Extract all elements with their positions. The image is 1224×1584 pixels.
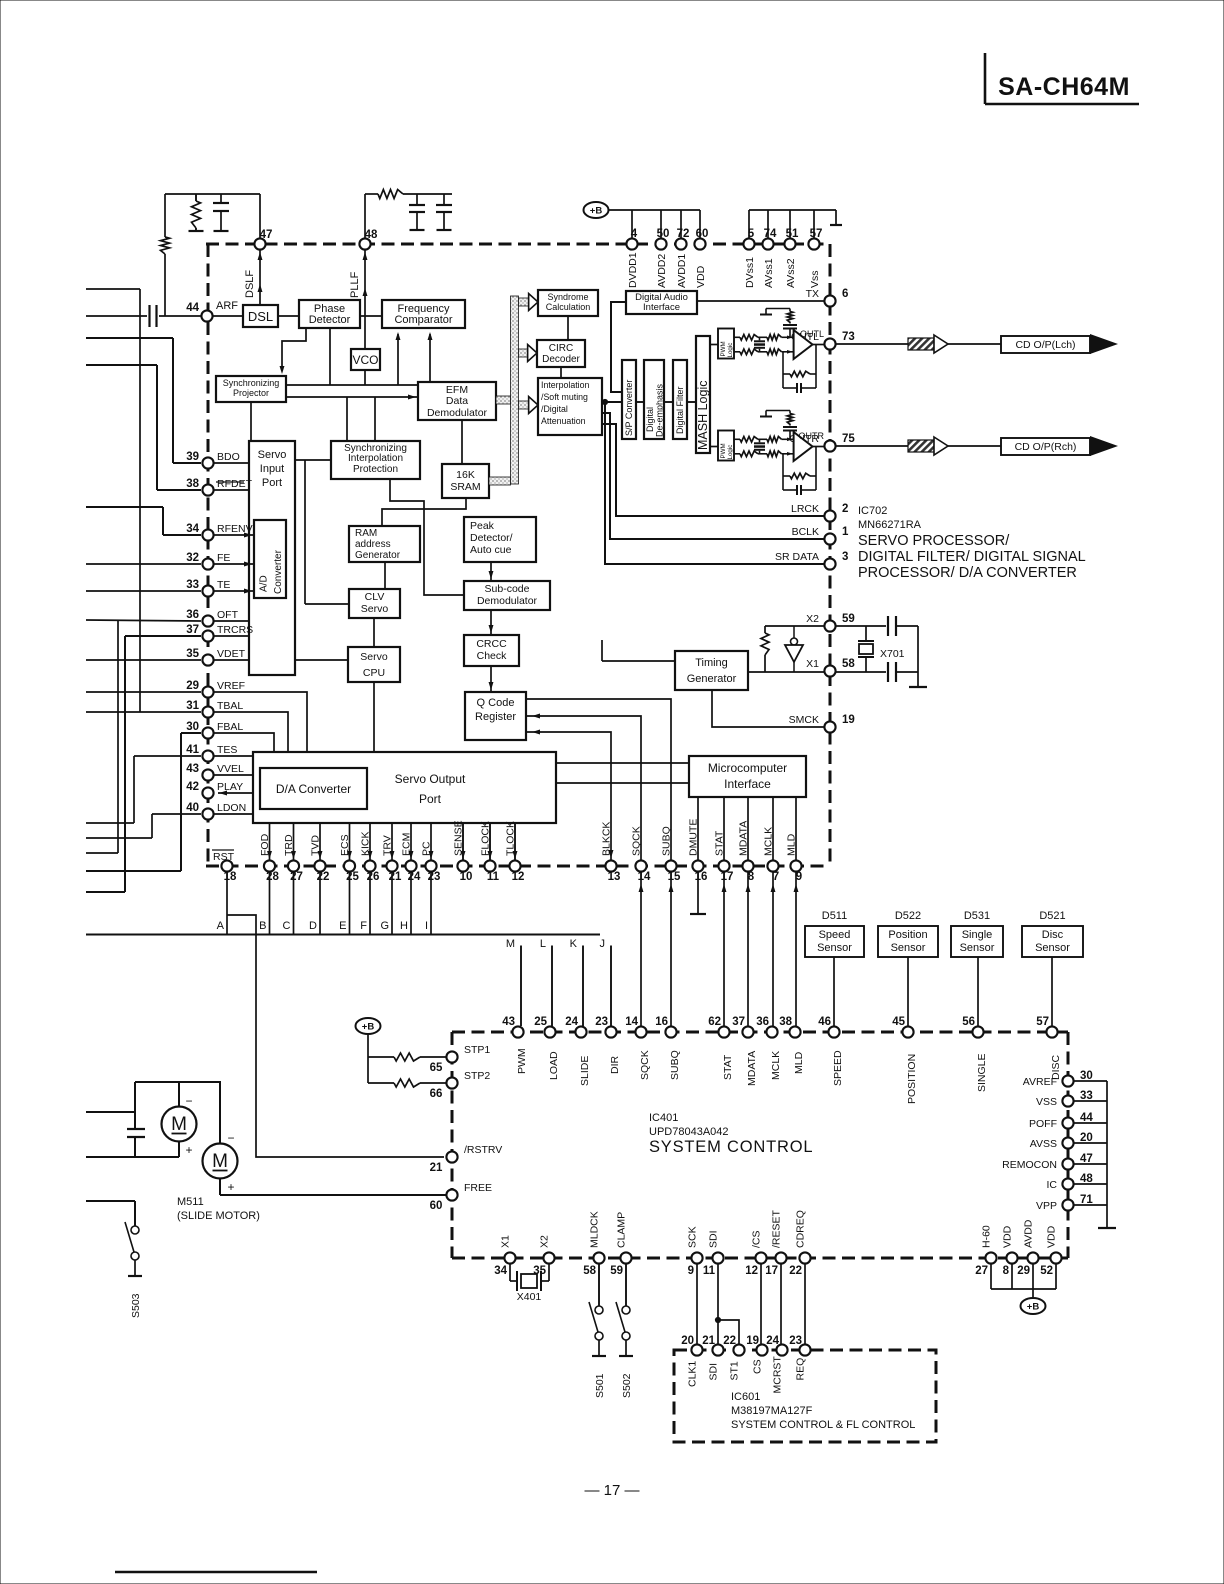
svg-text:73: 73 bbox=[842, 331, 855, 343]
svg-text:VDD: VDD bbox=[695, 265, 707, 288]
svg-text:C: C bbox=[283, 920, 291, 932]
svg-text:21: 21 bbox=[389, 871, 402, 883]
svg-text:18: 18 bbox=[224, 871, 237, 883]
svg-text:−: − bbox=[185, 1094, 192, 1108]
svg-text:Digital Filter: Digital Filter bbox=[675, 386, 685, 434]
svg-text:VREF: VREF bbox=[217, 680, 245, 692]
svg-text:RST: RST bbox=[213, 851, 235, 863]
svg-text:27: 27 bbox=[975, 1265, 988, 1277]
svg-text:Input: Input bbox=[260, 463, 284, 475]
svg-text:H: H bbox=[400, 920, 408, 932]
svg-text:39: 39 bbox=[186, 451, 199, 463]
svg-text:Sensor: Sensor bbox=[960, 942, 995, 954]
svg-text:IC702: IC702 bbox=[858, 505, 887, 517]
svg-text:28: 28 bbox=[266, 871, 279, 883]
svg-text:CLV: CLV bbox=[365, 591, 385, 603]
svg-text:IC601: IC601 bbox=[731, 1391, 760, 1403]
svg-text:17: 17 bbox=[721, 871, 734, 883]
svg-text:X2: X2 bbox=[806, 613, 819, 625]
svg-text:VDET: VDET bbox=[217, 648, 246, 660]
svg-text:Attenuation: Attenuation bbox=[541, 416, 586, 426]
svg-text:+: + bbox=[185, 1143, 192, 1157]
svg-text:Generator: Generator bbox=[687, 673, 737, 685]
svg-text:MLD: MLD bbox=[793, 1051, 805, 1074]
svg-text:— 17 —: — 17 — bbox=[584, 1482, 639, 1499]
svg-text:BCLK: BCLK bbox=[792, 526, 819, 538]
svg-text:MN66271RA: MN66271RA bbox=[858, 519, 922, 531]
svg-text:E: E bbox=[339, 920, 346, 932]
svg-text:/RESET: /RESET bbox=[771, 1209, 783, 1248]
svg-text:SDI: SDI bbox=[708, 1230, 720, 1248]
svg-text:I: I bbox=[425, 920, 428, 932]
svg-text:22: 22 bbox=[317, 871, 330, 883]
svg-text:19: 19 bbox=[746, 1335, 759, 1347]
svg-text:12: 12 bbox=[512, 871, 525, 883]
svg-text:POFF: POFF bbox=[1029, 1118, 1057, 1130]
svg-text:65: 65 bbox=[430, 1062, 443, 1074]
svg-text:D/A Converter: D/A Converter bbox=[276, 782, 351, 796]
svg-text:TE: TE bbox=[217, 579, 230, 591]
svg-text:FBAL: FBAL bbox=[217, 721, 243, 733]
svg-text:Interface: Interface bbox=[724, 777, 771, 791]
svg-text:CIRC: CIRC bbox=[549, 343, 573, 354]
svg-text:PWM: PWM bbox=[516, 1048, 528, 1074]
svg-text:66: 66 bbox=[430, 1088, 443, 1100]
svg-text:Servo Output: Servo Output bbox=[395, 772, 466, 786]
svg-text:46: 46 bbox=[818, 1016, 831, 1028]
svg-text:De-emphasis: De-emphasis bbox=[655, 383, 665, 437]
svg-text:IC: IC bbox=[1047, 1179, 1058, 1191]
svg-text:D511: D511 bbox=[822, 910, 847, 922]
svg-text:CRCC: CRCC bbox=[476, 638, 507, 650]
svg-text:25: 25 bbox=[346, 871, 359, 883]
svg-text:SCK: SCK bbox=[687, 1226, 699, 1248]
svg-text:43: 43 bbox=[186, 763, 199, 775]
svg-text:37: 37 bbox=[186, 624, 199, 636]
svg-text:Generator: Generator bbox=[355, 550, 401, 561]
svg-text:PROCESSOR/ D/A CONVERTER: PROCESSOR/ D/A CONVERTER bbox=[858, 565, 1077, 581]
svg-text:48: 48 bbox=[365, 229, 378, 241]
svg-text:VCO: VCO bbox=[352, 353, 378, 367]
svg-text:M: M bbox=[212, 1151, 228, 1172]
svg-text:/Digital: /Digital bbox=[541, 404, 568, 414]
svg-text:MDATA: MDATA bbox=[746, 1051, 758, 1086]
svg-text:30: 30 bbox=[186, 721, 199, 733]
svg-text:SLIDE: SLIDE bbox=[579, 1056, 591, 1086]
svg-text:52: 52 bbox=[1040, 1265, 1053, 1277]
svg-text:Disc: Disc bbox=[1042, 929, 1064, 941]
svg-text:43: 43 bbox=[502, 1016, 515, 1028]
svg-text:42: 42 bbox=[186, 781, 199, 793]
svg-text:AVDD1: AVDD1 bbox=[676, 254, 688, 288]
svg-text:OUTR: OUTR bbox=[799, 431, 825, 441]
svg-text:36: 36 bbox=[756, 1016, 769, 1028]
svg-text:AVss1: AVss1 bbox=[763, 258, 775, 288]
svg-text:POSITION: POSITION bbox=[906, 1054, 918, 1104]
svg-text:38: 38 bbox=[186, 478, 199, 490]
svg-text:K: K bbox=[570, 938, 578, 950]
svg-text:56: 56 bbox=[962, 1016, 975, 1028]
svg-text:STP2: STP2 bbox=[464, 1070, 490, 1082]
svg-text:72: 72 bbox=[677, 228, 690, 240]
svg-text:17: 17 bbox=[765, 1265, 778, 1277]
svg-text:SINGLE: SINGLE bbox=[976, 1053, 988, 1092]
svg-text:FREE: FREE bbox=[464, 1182, 492, 1194]
svg-text:ARF: ARF bbox=[216, 300, 238, 312]
svg-text:+B: +B bbox=[590, 206, 603, 217]
svg-text:SDI: SDI bbox=[708, 1363, 720, 1381]
svg-text:D: D bbox=[309, 920, 317, 932]
svg-text:TES: TES bbox=[217, 744, 237, 756]
svg-text:D522: D522 bbox=[895, 910, 921, 922]
svg-text:37: 37 bbox=[732, 1016, 745, 1028]
svg-text:SQCK: SQCK bbox=[639, 1050, 651, 1080]
svg-text:Logic: Logic bbox=[727, 343, 734, 358]
svg-text:59: 59 bbox=[610, 1265, 623, 1277]
svg-text:DSLF: DSLF bbox=[244, 270, 256, 298]
svg-text:PWM: PWM bbox=[720, 443, 727, 458]
svg-text:Digital: Digital bbox=[645, 407, 655, 432]
svg-text:Interface: Interface bbox=[643, 302, 680, 313]
svg-text:Port: Port bbox=[262, 477, 282, 489]
svg-text:29: 29 bbox=[186, 680, 199, 692]
svg-text:24: 24 bbox=[766, 1335, 779, 1347]
svg-text:CD O/P(Rch): CD O/P(Rch) bbox=[1015, 441, 1077, 453]
svg-text:10: 10 bbox=[460, 871, 473, 883]
svg-text:SUBQ: SUBQ bbox=[669, 1050, 681, 1080]
svg-text:Speed: Speed bbox=[819, 929, 851, 941]
svg-text:A/D: A/D bbox=[259, 575, 270, 592]
svg-text:AVDD: AVDD bbox=[1023, 1219, 1035, 1248]
svg-text:LDON: LDON bbox=[217, 802, 246, 814]
svg-text:D521: D521 bbox=[1039, 910, 1065, 922]
svg-text:M: M bbox=[171, 1114, 187, 1135]
svg-text:23: 23 bbox=[595, 1016, 608, 1028]
svg-text:AVSS: AVSS bbox=[1030, 1138, 1057, 1150]
svg-text:Vss: Vss bbox=[809, 270, 821, 288]
svg-text:OFT: OFT bbox=[217, 609, 239, 621]
svg-text:(SLIDE MOTOR): (SLIDE MOTOR) bbox=[177, 1210, 260, 1222]
svg-text:VDD: VDD bbox=[1002, 1225, 1014, 1248]
svg-text:60: 60 bbox=[696, 228, 709, 240]
svg-text:DIGITAL FILTER/ DIGITAL SIGNAL: DIGITAL FILTER/ DIGITAL SIGNAL bbox=[858, 549, 1086, 565]
svg-text:STAT: STAT bbox=[722, 1054, 734, 1080]
svg-text:B: B bbox=[259, 920, 266, 932]
svg-text:22: 22 bbox=[789, 1265, 802, 1277]
svg-text:Detector/: Detector/ bbox=[470, 532, 513, 544]
svg-text:J: J bbox=[600, 938, 606, 950]
svg-text:Interpolation: Interpolation bbox=[348, 453, 403, 464]
svg-text:SR DATA: SR DATA bbox=[775, 551, 819, 563]
svg-text:44: 44 bbox=[186, 302, 199, 314]
svg-text:DVDD1: DVDD1 bbox=[627, 252, 639, 288]
svg-text:51: 51 bbox=[786, 228, 799, 240]
svg-text:H-60: H-60 bbox=[981, 1225, 993, 1248]
svg-text:36: 36 bbox=[186, 609, 199, 621]
svg-text:−: − bbox=[227, 1131, 234, 1145]
svg-text:24: 24 bbox=[565, 1016, 578, 1028]
svg-text:AVDD2: AVDD2 bbox=[656, 254, 668, 288]
svg-text:23: 23 bbox=[428, 871, 441, 883]
svg-text:Demodulator: Demodulator bbox=[427, 407, 488, 419]
svg-text:RFENV: RFENV bbox=[217, 523, 253, 535]
svg-text:SYSTEM CONTROL & FL CONTROL: SYSTEM CONTROL & FL CONTROL bbox=[731, 1419, 915, 1431]
svg-text:2: 2 bbox=[842, 503, 848, 515]
svg-text:VPP: VPP bbox=[1036, 1200, 1057, 1212]
svg-text:LOAD: LOAD bbox=[548, 1051, 560, 1080]
svg-text:23: 23 bbox=[789, 1335, 802, 1347]
svg-text:9: 9 bbox=[688, 1265, 694, 1277]
svg-text:ST1: ST1 bbox=[729, 1361, 741, 1380]
svg-text:TBAL: TBAL bbox=[217, 700, 243, 712]
svg-text:21: 21 bbox=[702, 1335, 715, 1347]
svg-text:S501: S501 bbox=[594, 1373, 606, 1398]
svg-text:47: 47 bbox=[260, 229, 273, 241]
svg-text:G: G bbox=[380, 920, 389, 932]
svg-text:RFDET: RFDET bbox=[217, 478, 253, 490]
svg-text:Decoder: Decoder bbox=[542, 354, 580, 365]
svg-text:40: 40 bbox=[186, 802, 199, 814]
svg-text:VDD: VDD bbox=[1046, 1225, 1058, 1248]
svg-text:Projector: Projector bbox=[233, 388, 269, 398]
svg-text:CDREQ: CDREQ bbox=[795, 1210, 807, 1248]
svg-text:IC401: IC401 bbox=[649, 1112, 678, 1124]
svg-text:M511: M511 bbox=[177, 1196, 204, 1208]
svg-text:62: 62 bbox=[708, 1016, 721, 1028]
svg-text:57: 57 bbox=[810, 228, 823, 240]
svg-text:VVEL: VVEL bbox=[217, 763, 244, 775]
svg-text:Logic: Logic bbox=[727, 445, 734, 460]
svg-text:24: 24 bbox=[408, 871, 421, 883]
svg-text:S/P Converter: S/P Converter bbox=[624, 380, 634, 436]
svg-text:S502: S502 bbox=[621, 1373, 633, 1398]
svg-text:6: 6 bbox=[842, 288, 848, 300]
svg-text:Position: Position bbox=[888, 929, 927, 941]
svg-text:MCLK: MCLK bbox=[770, 1051, 782, 1080]
svg-text:32: 32 bbox=[186, 552, 199, 564]
svg-text:16: 16 bbox=[655, 1016, 668, 1028]
svg-text:MCRST: MCRST bbox=[772, 1356, 784, 1394]
svg-text:74: 74 bbox=[764, 228, 777, 240]
svg-text:3: 3 bbox=[842, 551, 848, 563]
svg-text:X2: X2 bbox=[539, 1235, 551, 1248]
svg-text:A: A bbox=[217, 920, 225, 932]
svg-text:PLAY: PLAY bbox=[217, 781, 243, 793]
svg-text:FE: FE bbox=[217, 552, 230, 564]
svg-text:Peak: Peak bbox=[470, 520, 495, 532]
svg-text:Q Code: Q Code bbox=[477, 697, 515, 709]
svg-text:13: 13 bbox=[608, 871, 621, 883]
svg-text:Comparator: Comparator bbox=[394, 314, 452, 326]
svg-text:Sensor: Sensor bbox=[891, 942, 926, 954]
svg-text:11: 11 bbox=[703, 1265, 716, 1277]
svg-text:58: 58 bbox=[583, 1265, 596, 1277]
svg-text:25: 25 bbox=[534, 1016, 547, 1028]
svg-text:MLDCK: MLDCK bbox=[589, 1211, 601, 1248]
svg-text:11: 11 bbox=[487, 871, 500, 883]
svg-text:M38197MA127F: M38197MA127F bbox=[731, 1405, 813, 1417]
svg-text:26: 26 bbox=[367, 871, 380, 883]
svg-text:Register: Register bbox=[475, 711, 516, 723]
svg-text:Protection: Protection bbox=[353, 464, 398, 475]
svg-text:AVREF: AVREF bbox=[1023, 1076, 1057, 1088]
svg-text:Detector: Detector bbox=[309, 314, 351, 326]
svg-text:+: + bbox=[227, 1180, 234, 1194]
svg-text:X1: X1 bbox=[806, 658, 819, 670]
svg-text:Timing: Timing bbox=[695, 657, 728, 669]
svg-text:Servo: Servo bbox=[360, 651, 388, 663]
svg-text:UPD78043A042: UPD78043A042 bbox=[649, 1126, 729, 1138]
svg-text:X701: X701 bbox=[880, 648, 905, 660]
svg-text:34: 34 bbox=[186, 523, 199, 535]
svg-text:Sub-code: Sub-code bbox=[485, 583, 530, 595]
svg-text:57: 57 bbox=[1036, 1016, 1049, 1028]
svg-text:L: L bbox=[540, 938, 546, 950]
svg-text:SA-CH64M: SA-CH64M bbox=[998, 73, 1130, 101]
svg-text:20: 20 bbox=[681, 1335, 694, 1347]
svg-text:X1: X1 bbox=[500, 1235, 512, 1248]
svg-text:1: 1 bbox=[842, 526, 849, 538]
svg-text:14: 14 bbox=[638, 871, 651, 883]
svg-text:PWM: PWM bbox=[720, 341, 727, 356]
svg-text:31: 31 bbox=[186, 700, 199, 712]
svg-text:Single: Single bbox=[962, 929, 993, 941]
svg-text:60: 60 bbox=[430, 1200, 443, 1212]
svg-text:SYSTEM CONTROL: SYSTEM CONTROL bbox=[649, 1138, 813, 1156]
svg-text:Sensor: Sensor bbox=[1035, 942, 1070, 954]
svg-text:Interpolation: Interpolation bbox=[541, 380, 590, 390]
svg-text:/Soft muting: /Soft muting bbox=[541, 392, 588, 402]
svg-text:Microcomputer: Microcomputer bbox=[708, 761, 787, 775]
svg-text:/RSTRV: /RSTRV bbox=[464, 1144, 502, 1156]
svg-text:SRAM: SRAM bbox=[450, 481, 480, 493]
svg-text:59: 59 bbox=[842, 613, 855, 625]
svg-text:8: 8 bbox=[1003, 1265, 1010, 1277]
svg-text:SPEED: SPEED bbox=[832, 1050, 844, 1086]
svg-text:STP1: STP1 bbox=[464, 1044, 490, 1056]
svg-text:CLAMP: CLAMP bbox=[616, 1212, 628, 1248]
svg-text:22: 22 bbox=[723, 1335, 736, 1347]
svg-text:Syndrome: Syndrome bbox=[547, 292, 588, 302]
svg-text:Data: Data bbox=[446, 395, 468, 407]
svg-text:Servo: Servo bbox=[258, 449, 287, 461]
svg-text:34: 34 bbox=[494, 1265, 507, 1277]
svg-text:S503: S503 bbox=[130, 1293, 142, 1318]
svg-text:Port: Port bbox=[419, 792, 442, 806]
svg-text:19: 19 bbox=[842, 714, 855, 726]
svg-text:X401: X401 bbox=[517, 1291, 542, 1303]
svg-text:DVss1: DVss1 bbox=[744, 257, 756, 288]
svg-text:41: 41 bbox=[186, 744, 199, 756]
svg-text:27: 27 bbox=[290, 871, 303, 883]
svg-text:50: 50 bbox=[657, 228, 670, 240]
svg-text:VSS: VSS bbox=[1036, 1096, 1057, 1108]
svg-text:LRCK: LRCK bbox=[791, 503, 819, 515]
svg-text:F: F bbox=[360, 920, 367, 932]
svg-text:Auto cue: Auto cue bbox=[470, 544, 512, 556]
svg-text:75: 75 bbox=[842, 433, 855, 445]
svg-text:Converter: Converter bbox=[273, 549, 284, 594]
svg-text:/CS: /CS bbox=[751, 1230, 763, 1248]
svg-text:15: 15 bbox=[668, 871, 681, 883]
svg-text:CS: CS bbox=[752, 1359, 764, 1374]
svg-text:PLLF: PLLF bbox=[349, 271, 361, 298]
svg-text:SMCK: SMCK bbox=[789, 714, 819, 726]
svg-text:SERVO PROCESSOR/: SERVO PROCESSOR/ bbox=[858, 533, 1010, 549]
svg-text:45: 45 bbox=[892, 1016, 905, 1028]
svg-text:AVss2: AVss2 bbox=[785, 258, 797, 288]
svg-text:Calculation: Calculation bbox=[546, 302, 591, 312]
svg-text:Demodulator: Demodulator bbox=[477, 595, 538, 607]
svg-text:Synchronizing: Synchronizing bbox=[223, 378, 280, 388]
svg-text:CD O/P(Lch): CD O/P(Lch) bbox=[1015, 339, 1075, 351]
svg-text:+B: +B bbox=[362, 1022, 375, 1033]
svg-text:DSL: DSL bbox=[248, 309, 273, 324]
svg-text:D531: D531 bbox=[964, 910, 990, 922]
svg-text:33: 33 bbox=[186, 579, 199, 591]
svg-text:TRCRS: TRCRS bbox=[217, 624, 253, 636]
svg-text:OUTL: OUTL bbox=[800, 329, 824, 339]
svg-text:M: M bbox=[506, 938, 515, 950]
svg-text:REMOCON: REMOCON bbox=[1002, 1159, 1057, 1171]
svg-text:Servo: Servo bbox=[361, 603, 389, 615]
svg-text:38: 38 bbox=[779, 1016, 792, 1028]
svg-text:14: 14 bbox=[625, 1016, 638, 1028]
svg-text:CLK1: CLK1 bbox=[687, 1361, 699, 1387]
svg-text:+B: +B bbox=[1027, 1302, 1040, 1313]
svg-text:TX: TX bbox=[806, 288, 819, 300]
svg-text:RAM: RAM bbox=[355, 528, 377, 539]
svg-text:Check: Check bbox=[477, 650, 508, 662]
svg-text:CPU: CPU bbox=[363, 667, 385, 679]
svg-text:16: 16 bbox=[695, 871, 708, 883]
svg-text:REQ: REQ bbox=[795, 1358, 807, 1381]
svg-text:BDO: BDO bbox=[217, 451, 240, 463]
svg-text:58: 58 bbox=[842, 658, 855, 670]
svg-text:MASH Logic: MASH Logic bbox=[696, 381, 710, 450]
svg-text:DIR: DIR bbox=[609, 1056, 621, 1075]
svg-text:address: address bbox=[355, 539, 391, 550]
svg-text:35: 35 bbox=[186, 648, 199, 660]
svg-text:12: 12 bbox=[745, 1265, 758, 1277]
svg-text:Sensor: Sensor bbox=[817, 942, 852, 954]
svg-text:21: 21 bbox=[430, 1162, 443, 1174]
svg-text:16K: 16K bbox=[456, 469, 475, 481]
svg-text:29: 29 bbox=[1017, 1265, 1030, 1277]
